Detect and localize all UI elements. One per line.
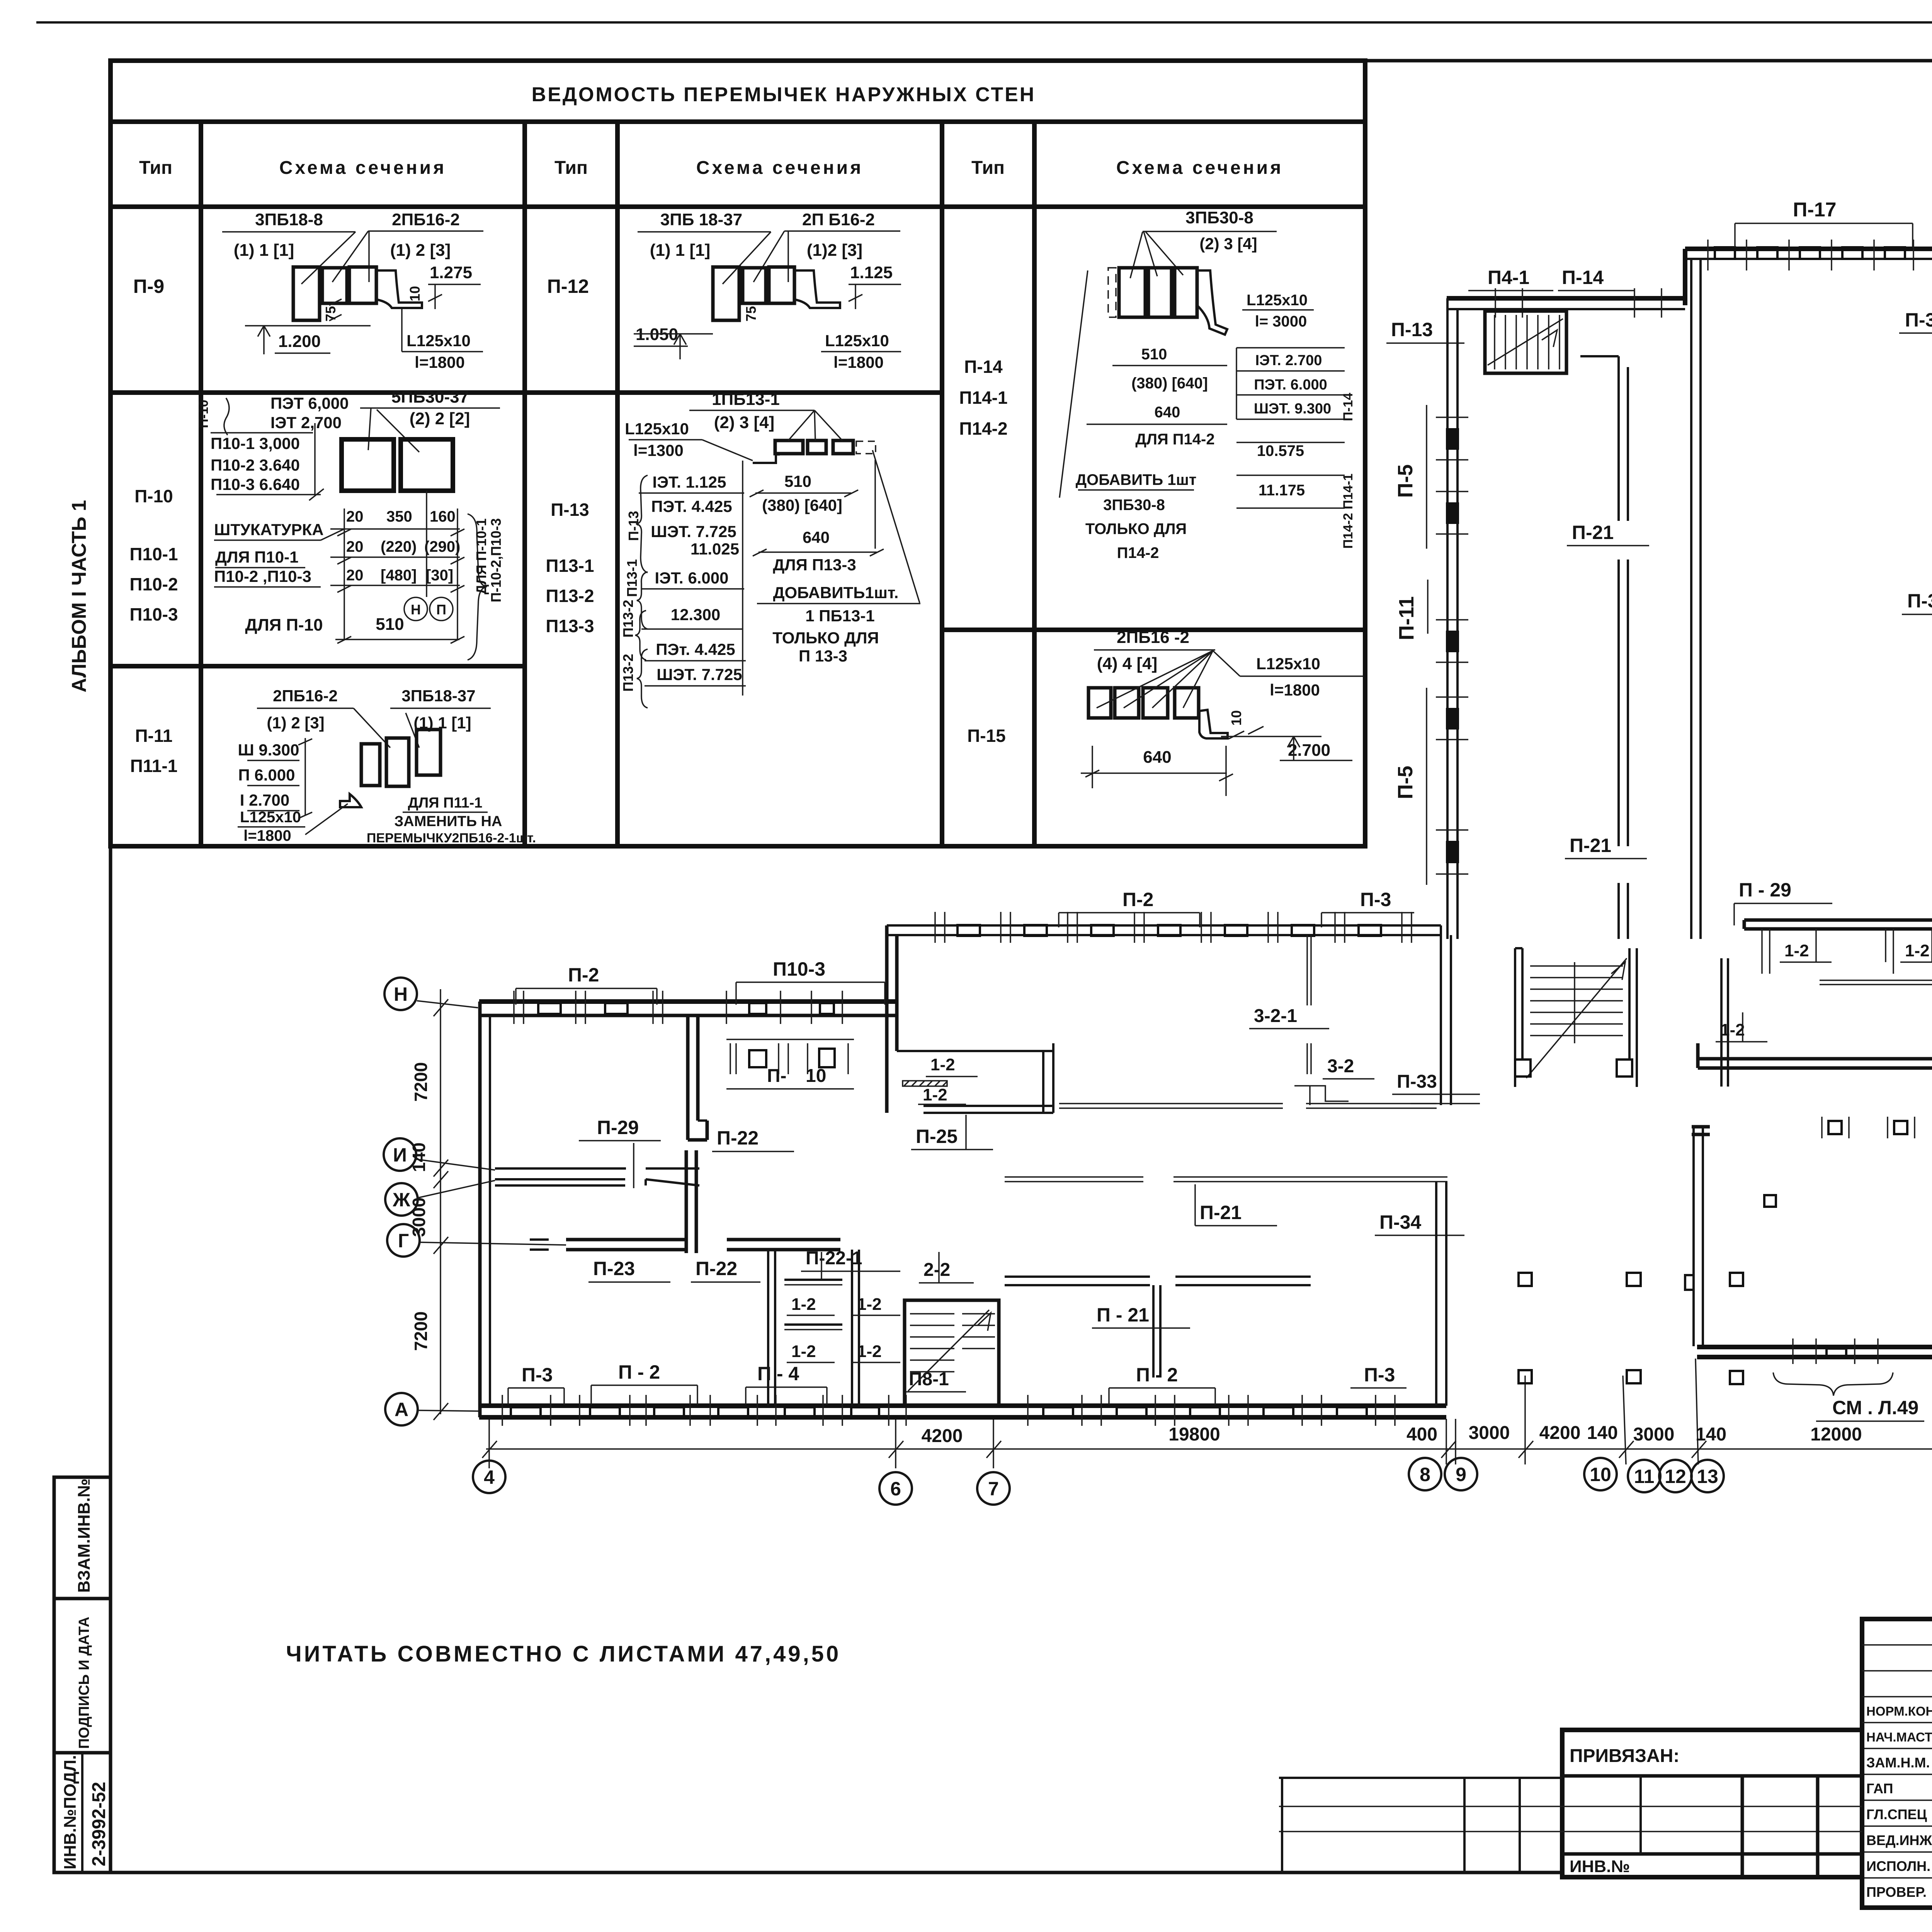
svg-text:3ПБ30-8: 3ПБ30-8 — [1185, 208, 1253, 227]
windows on Н wall — [538, 1003, 561, 1014]
bottom dim ticks — [482, 1441, 1932, 1458]
svg-text:10.575: 10.575 — [1257, 442, 1304, 459]
svg-text:IЭТ. 6.000: IЭТ. 6.000 — [655, 569, 729, 587]
svg-text:П-3: П-3 — [1360, 889, 1391, 910]
svg-text:П10-2 3.640: П10-2 3.640 — [211, 456, 300, 474]
svg-text:П11-1: П11-1 — [130, 756, 178, 776]
П-12 lintel blocks — [713, 267, 739, 320]
svg-text:9: 9 — [1456, 1464, 1466, 1485]
svg-text:75: 75 — [743, 306, 759, 321]
inner frame left — [109, 61, 112, 1872]
svg-text:П - 2: П - 2 — [1136, 1364, 1178, 1386]
left vertical dim line — [440, 989, 441, 1414]
svg-text:П-21: П-21 — [1200, 1202, 1242, 1223]
svg-text:П-21: П-21 — [1572, 522, 1614, 543]
stair columns — [1515, 1060, 1531, 1077]
svg-text:П-25: П-25 — [916, 1126, 957, 1147]
svg-text:ПЕРЕМЫЧКУ2ПБ16-2-1шт.: ПЕРЕМЫЧКУ2ПБ16-2-1шт. — [367, 831, 536, 845]
svg-text:IЭТ. 1.125: IЭТ. 1.125 — [653, 473, 726, 491]
svg-text:640: 640 — [1155, 404, 1180, 421]
svg-text:П 13-3: П 13-3 — [799, 647, 847, 665]
svg-text:12000: 12000 — [1810, 1424, 1862, 1445]
svg-text:L125x10: L125x10 — [240, 809, 301, 826]
svg-text:L125x10: L125x10 — [406, 332, 471, 350]
corridor right wall — [1690, 258, 1692, 939]
svg-text:(2) 2 [2]: (2) 2 [2] — [410, 409, 470, 428]
leader fan — [1097, 651, 1213, 708]
T-wall center (down from Н wall) — [686, 1015, 690, 1140]
svg-text:10: 10 — [806, 1066, 826, 1086]
right wall of middle wing — [1435, 1182, 1437, 1406]
svg-text:ЗАМЕНИТЬ НА: ЗАМЕНИТЬ НА — [395, 813, 502, 830]
Г axis interior walls — [566, 1238, 686, 1242]
svg-text:13: 13 — [1697, 1466, 1718, 1487]
stepped angle — [753, 454, 780, 463]
svg-text:П-13: П-13 — [1391, 319, 1433, 340]
svg-text:1-2: 1-2 — [857, 1342, 882, 1361]
svg-text:19800: 19800 — [1168, 1424, 1220, 1445]
svg-text:П13-1: П13-1 — [546, 556, 594, 576]
two block squares — [342, 439, 394, 491]
svg-text:П-5: П-5 — [1394, 464, 1417, 498]
brace right — [468, 514, 487, 660]
svg-text:ГАП: ГАП — [1866, 1781, 1893, 1796]
svg-text:(2) 3 [4]: (2) 3 [4] — [1199, 235, 1257, 253]
bottom extension lines — [489, 1306, 1932, 1468]
svg-text:400: 400 — [1406, 1424, 1437, 1445]
svg-text:ДЛЯ П-10-1: ДЛЯ П-10-1 — [473, 519, 489, 595]
svg-text:ТОЛЬКО ДЛЯ: ТОЛЬКО ДЛЯ — [772, 629, 879, 647]
svg-text:(1) 2 [3]: (1) 2 [3] — [267, 714, 324, 732]
svg-text:П-36: П-36 — [1905, 309, 1932, 331]
svg-text:НОРМ.КОН: НОРМ.КОН — [1866, 1704, 1932, 1718]
svg-text:(1)2 [3]: (1)2 [3] — [807, 241, 862, 260]
svg-text:ПЭТ 6,000: ПЭТ 6,000 — [270, 394, 349, 412]
svg-text:П-10: П-10 — [196, 400, 211, 428]
svg-text:П13-1: П13-1 — [624, 559, 640, 597]
svg-text:П13-2: П13-2 — [620, 600, 636, 638]
svg-text:2П Б16-2: 2П Б16-2 — [802, 210, 875, 229]
hall left wall — [1692, 1126, 1695, 1346]
axis А bubble left — [385, 1393, 418, 1425]
svg-text:СМ . Л.49: СМ . Л.49 — [1832, 1397, 1918, 1418]
svg-text:П-33: П-33 — [1397, 1071, 1437, 1092]
svg-text:ДЛЯ П-10: ДЛЯ П-10 — [245, 616, 323, 634]
bathroom cluster walls — [767, 1250, 769, 1406]
svg-text:П - 29: П - 29 — [1739, 879, 1791, 901]
svg-text:(290): (290) — [424, 538, 460, 555]
svg-text:20: 20 — [346, 567, 364, 584]
svg-text:ВЕДОМОСТЬ ПЕРЕМЫЧЕК НАРУЖНЫХ: ВЕДОМОСТЬ ПЕРЕМЫЧЕК НАРУЖНЫХ СТЕН — [532, 83, 1036, 106]
svg-text:АЛЬБОМ I ЧАСТЬ 1: АЛЬБОМ I ЧАСТЬ 1 — [68, 500, 90, 692]
svg-text:L125x10: L125x10 — [625, 420, 689, 438]
svg-text:П - 21: П - 21 — [1097, 1304, 1149, 1326]
svg-text:П - 4: П - 4 — [757, 1363, 799, 1384]
svg-text:Ш 9.300: Ш 9.300 — [238, 741, 299, 759]
svg-text:П-22: П-22 — [696, 1258, 737, 1279]
svg-text:ДЛЯ П14-2: ДЛЯ П14-2 — [1135, 431, 1214, 448]
angle under — [1199, 710, 1228, 738]
1-2 lintels bathroom — [784, 1279, 842, 1281]
svg-text:П-14: П-14 — [964, 357, 1003, 377]
corridor columns group — [1627, 1273, 1641, 1286]
svg-text:П-10: П-10 — [134, 486, 173, 506]
lintel blocks row — [775, 440, 803, 454]
inner frame top — [111, 59, 1932, 63]
svg-text:11.175: 11.175 — [1259, 482, 1305, 499]
svg-text:ВЗАМ.ИНВ.№: ВЗАМ.ИНВ.№ — [75, 1478, 94, 1593]
svg-text:(4) 4 [4]: (4) 4 [4] — [1097, 654, 1157, 673]
svg-text:11.025: 11.025 — [690, 540, 739, 558]
svg-text:П-15: П-15 — [967, 726, 1006, 746]
corridor wall П-21 (inner) — [1617, 356, 1620, 521]
svg-text:Тип: Тип — [139, 158, 172, 178]
svg-text:П-34: П-34 — [1379, 1211, 1421, 1233]
svg-text:3000: 3000 — [1633, 1424, 1675, 1445]
ground line + dim 1.200 — [245, 325, 371, 327]
svg-text:1-2: 1-2 — [857, 1295, 882, 1314]
svg-text:А: А — [395, 1399, 408, 1420]
svg-text:ДЛЯ П11-1: ДЛЯ П11-1 — [408, 795, 483, 811]
svg-text:4200: 4200 — [1539, 1423, 1581, 1443]
svg-text:3-2: 3-2 — [1327, 1056, 1354, 1077]
axis Г bubble left — [387, 1224, 420, 1257]
privyazan box — [1562, 1730, 1862, 1877]
svg-text:510: 510 — [1141, 346, 1167, 363]
svg-text:ВЕД.ИНЖ: ВЕД.ИНЖ — [1866, 1832, 1932, 1848]
svg-text:4: 4 — [484, 1466, 495, 1488]
PLAN — [384, 155, 1932, 1505]
svg-text:140: 140 — [409, 1143, 429, 1172]
svg-text:510: 510 — [376, 615, 404, 634]
svg-text:ШЭТ. 7.725: ШЭТ. 7.725 — [656, 665, 742, 684]
lintel schedule table outline — [111, 61, 1365, 846]
svg-text:ГЛ.СПЕЦ: ГЛ.СПЕЦ — [1866, 1806, 1927, 1822]
svg-text:2ПБ16-2: 2ПБ16-2 — [392, 210, 460, 229]
svg-text:(1) 2 [3]: (1) 2 [3] — [390, 241, 451, 260]
hatched lintel in П-25 — [903, 1081, 947, 1086]
svg-text:П-35: П-35 — [1907, 590, 1932, 612]
С wall corner down at x3729 — [1440, 925, 1442, 1105]
svg-text:6: 6 — [890, 1478, 901, 1500]
window ticks on it — [1495, 288, 1662, 318]
svg-text:ДОБАВИТЬ1шт.: ДОБАВИТЬ1шт. — [773, 583, 899, 602]
steel angle П-9 — [376, 270, 422, 308]
bottom axis bubbles — [473, 1454, 1932, 1505]
П-29 room verticals near stair — [1720, 958, 1723, 1087]
floating П-10 columns — [749, 1050, 766, 1067]
1-2 Т-pieces below С wall — [1762, 929, 1932, 974]
svg-text:ИНВ.№ПОДЛ.: ИНВ.№ПОДЛ. — [61, 1755, 80, 1869]
hall top-left stub — [1692, 1125, 1710, 1129]
label 3-2 — [1306, 1043, 1308, 1074]
row line П-14/П-15 — [942, 628, 1365, 632]
svg-text:[480]: [480] — [381, 567, 417, 584]
svg-text:ПЭТ. 4.425: ПЭТ. 4.425 — [651, 497, 732, 515]
wing left wall — [478, 1002, 482, 1417]
svg-text:IЭТ 2,700: IЭТ 2,700 — [270, 413, 342, 432]
svg-text:П: П — [436, 602, 446, 617]
Н axis wall right building left part — [1698, 1057, 1932, 1061]
svg-text:l=1800: l=1800 — [1270, 681, 1320, 699]
see sheet 49 brace bottom — [1773, 1372, 1893, 1396]
axis Ж bubble left — [385, 1183, 418, 1216]
thin wall below П-29 wall — [1820, 980, 1932, 981]
svg-text:1-2: 1-2 — [791, 1342, 816, 1361]
svg-text:12.300: 12.300 — [671, 605, 720, 624]
partition under С wall — [1306, 935, 1308, 1005]
svg-text:И: И — [393, 1144, 407, 1166]
svg-text:L125x10: L125x10 — [825, 332, 889, 350]
svg-text:ПЭТ. 6.000: ПЭТ. 6.000 — [1254, 377, 1327, 393]
svg-text:ПРИВЯЗАН:: ПРИВЯЗАН: — [1570, 1746, 1679, 1766]
svg-text:1.275: 1.275 — [430, 263, 472, 282]
svg-text:8: 8 — [1420, 1464, 1430, 1485]
П-22 wall piece right — [645, 1179, 647, 1185]
И/Ж corridor walls — [495, 1167, 626, 1170]
svg-text:Тип: Тип — [971, 158, 1005, 178]
svg-text:160: 160 — [430, 508, 456, 525]
svg-text:2-3992-52: 2-3992-52 — [89, 1782, 109, 1866]
title block outer — [1862, 1619, 1932, 1908]
svg-text:10: 10 — [1228, 710, 1244, 726]
middle wing bottom wall (窗) continues А wall — [1005, 1403, 1446, 1408]
wing top wall (axis Н) — [479, 999, 896, 1004]
svg-text:3000: 3000 — [409, 1197, 429, 1237]
outer top border line — [36, 21, 1932, 24]
windows on left wall — [1436, 417, 1468, 874]
svg-text:ДЛЯ П10-1: ДЛЯ П10-1 — [215, 548, 299, 566]
hall bottom wall — [1697, 1345, 1932, 1349]
П-17 windows — [1715, 247, 1735, 259]
svg-text:П-11: П-11 — [1395, 596, 1418, 640]
axis И bubble left — [384, 1138, 416, 1171]
row line П-10/П-11 — [111, 664, 525, 668]
svg-text:П-3: П-3 — [1364, 1364, 1395, 1386]
svg-text:(380) [640]: (380) [640] — [762, 496, 842, 514]
vertical wall from Г down — [685, 1150, 688, 1253]
svg-text:ИНВ.№: ИНВ.№ — [1570, 1857, 1630, 1876]
svg-text:П-22-1: П-22-1 — [806, 1248, 862, 1269]
svg-text:П13-3: П13-3 — [546, 616, 594, 636]
svg-text:П14-2 П14-1: П14-2 П14-1 — [1341, 474, 1355, 549]
svg-text:Н: Н — [411, 602, 421, 617]
svg-text:12: 12 — [1665, 1466, 1686, 1487]
svg-text:П-3: П-3 — [522, 1364, 553, 1386]
svg-text:20: 20 — [346, 508, 364, 525]
TITLEBLOCK — [1279, 1619, 1932, 1908]
svg-text:350: 350 — [386, 508, 412, 525]
svg-text:640: 640 — [1143, 748, 1171, 767]
svg-text:Н: Н — [394, 983, 408, 1005]
svg-text:1-2: 1-2 — [1905, 941, 1930, 960]
svg-text:ИСПОЛН.: ИСПОЛН. — [1866, 1858, 1930, 1874]
title row line — [111, 119, 1365, 124]
svg-text:П-2: П-2 — [568, 964, 599, 986]
hall inner columns — [1828, 1121, 1842, 1134]
svg-text:1-2: 1-2 — [1720, 1020, 1745, 1039]
bottom dimension line — [486, 1448, 1932, 1450]
wing bottom wall (axis А) — [479, 1403, 1005, 1408]
stair box — [1485, 311, 1566, 373]
svg-text:2ПБ16-2: 2ПБ16-2 — [273, 687, 338, 705]
axis Н bubble left — [384, 978, 417, 1010]
svg-text:ТОЛЬКО ДЛЯ: ТОЛЬКО ДЛЯ — [1085, 520, 1187, 537]
angle + blocks — [340, 794, 361, 807]
svg-text:20: 20 — [346, 538, 364, 555]
column lines — [199, 122, 203, 846]
storey marks box — [1236, 347, 1345, 349]
svg-text:П10-1: П10-1 — [129, 544, 178, 564]
svg-text:L125x10: L125x10 — [1256, 655, 1320, 673]
TABLE — [111, 61, 1365, 846]
svg-text:П-22: П-22 — [717, 1127, 759, 1149]
svg-text:1-2: 1-2 — [930, 1055, 955, 1074]
svg-text:4200: 4200 — [922, 1426, 963, 1446]
header row line — [111, 204, 1365, 209]
upper-left wall (axis К top) — [1447, 296, 1685, 301]
svg-text:П4-1: П4-1 — [1488, 267, 1529, 288]
svg-text:3ПБ 18-37: 3ПБ 18-37 — [660, 210, 742, 229]
svg-text:7: 7 — [988, 1478, 999, 1500]
jog from П-17 down to lower wall — [1683, 249, 1687, 305]
svg-text:П13-2: П13-2 — [546, 586, 594, 606]
svg-text:10: 10 — [1590, 1464, 1611, 1485]
svg-text:11: 11 — [1634, 1466, 1655, 1487]
svg-text:3-2-1: 3-2-1 — [1254, 1006, 1297, 1026]
svg-text:П-9: П-9 — [133, 276, 164, 297]
svg-text:7200: 7200 — [411, 1311, 431, 1351]
svg-text:140: 140 — [1696, 1424, 1726, 1445]
П-9 lintel blocks — [293, 267, 320, 320]
svg-text:ПЭт. 4.425: ПЭт. 4.425 — [656, 640, 735, 658]
svg-text:П-12: П-12 — [547, 276, 589, 297]
inner frame bottom left segment — [111, 1871, 1562, 1874]
svg-text:Г: Г — [398, 1230, 409, 1252]
svg-text:П-10-2,П10-3: П-10-2,П10-3 — [488, 518, 504, 602]
title block row lines (left part) — [1862, 1644, 1932, 1646]
svg-text:[30]: [30] — [426, 567, 453, 584]
svg-text:П-23: П-23 — [593, 1258, 635, 1279]
П-17 connector wall — [1685, 247, 1932, 251]
svg-text:3ПБ30-8: 3ПБ30-8 — [1103, 497, 1165, 514]
Н П circles — [404, 597, 427, 621]
П-25 room — [897, 1050, 1053, 1052]
svg-text:ПОДПИСЬ И ДАТА: ПОДПИСЬ И ДАТА — [76, 1617, 92, 1749]
svg-text:П-5: П-5 — [1394, 766, 1417, 799]
long wall at y3310 — [1005, 1276, 1150, 1278]
svg-text:П-14: П-14 — [1341, 393, 1355, 421]
svg-text:l=1800: l=1800 — [243, 827, 291, 844]
svg-text:П10-3: П10-3 — [773, 958, 825, 980]
svg-text:l=1800: l=1800 — [833, 353, 884, 371]
svg-text:2ПБ16 -2: 2ПБ16 -2 — [1117, 628, 1189, 647]
svg-text:3ПБ18-37: 3ПБ18-37 — [401, 687, 475, 705]
svg-text:ШЭТ. 9.300: ШЭТ. 9.300 — [1254, 401, 1331, 417]
svg-text:3ПБ18-8: 3ПБ18-8 — [255, 210, 323, 229]
svg-text:П-: П- — [767, 1066, 786, 1086]
svg-text:1ПБ13-1: 1ПБ13-1 — [712, 390, 780, 409]
svg-text:П-13: П-13 — [551, 500, 589, 520]
svg-text:ПРОВЕР.: ПРОВЕР. — [1866, 1884, 1927, 1900]
svg-text:П-11: П-11 — [135, 726, 172, 746]
four blocks with diagonal marks — [1088, 688, 1111, 718]
svg-text:Схема сечения: Схема сечения — [696, 158, 863, 178]
svg-text:ШТУКАТУРКА: ШТУКАТУРКА — [214, 520, 324, 539]
svg-text:L125x10: L125x10 — [1247, 292, 1308, 309]
svg-text:IЭТ. 2.700: IЭТ. 2.700 — [1255, 352, 1322, 369]
svg-text:П10-1 3,000: П10-1 3,000 — [211, 434, 300, 452]
svg-text:П14-1: П14-1 — [959, 388, 1007, 408]
row line П-9/П-10 — [111, 390, 942, 395]
П-9 leader lines — [301, 232, 355, 284]
svg-text:НАЧ.МАСТ: НАЧ.МАСТ — [1866, 1730, 1932, 1744]
svg-text:2-2: 2-2 — [923, 1260, 950, 1280]
svg-text:1-2: 1-2 — [923, 1085, 947, 1104]
svg-text:П-2: П-2 — [1122, 889, 1153, 910]
svg-text:П - 2: П - 2 — [618, 1361, 660, 1383]
svg-text:П-17: П-17 — [1793, 199, 1837, 221]
svg-text:510: 510 — [784, 472, 811, 490]
svg-text:ШЭТ. 7.725: ШЭТ. 7.725 — [651, 522, 736, 541]
svg-text:l=1800: l=1800 — [415, 353, 465, 371]
windows on А wall — [511, 1407, 879, 1417]
svg-text:(1) 1 [1]: (1) 1 [1] — [650, 241, 710, 260]
left exterior wall tall — [1446, 298, 1449, 939]
svg-text:П-21: П-21 — [1570, 835, 1611, 856]
svg-text:1.200: 1.200 — [278, 332, 321, 351]
svg-text:1 ПБ13-1: 1 ПБ13-1 — [805, 607, 874, 625]
svg-text:7200: 7200 — [411, 1062, 431, 1102]
left margin stamp boxes — [54, 1477, 111, 1872]
svg-text:П-14: П-14 — [1562, 267, 1604, 288]
dims 510/640 — [1112, 365, 1227, 366]
svg-text:ДОБАВИТЬ 1шт: ДОБАВИТЬ 1шт — [1076, 471, 1197, 488]
svg-text:I 2.700: I 2.700 — [240, 791, 289, 809]
svg-text:1-2: 1-2 — [1784, 941, 1809, 960]
svg-text:140: 140 — [1587, 1423, 1618, 1443]
svg-text:П10-2 ,П10-3: П10-2 ,П10-3 — [214, 567, 311, 585]
svg-text:П10-3: П10-3 — [129, 604, 178, 624]
svg-text:75: 75 — [323, 306, 338, 321]
svg-text:1.125: 1.125 — [850, 263, 893, 282]
svg-text:Схема сечения: Схема сечения — [279, 158, 446, 178]
svg-text:П10-2: П10-2 — [129, 574, 178, 594]
svg-text:(220): (220) — [381, 538, 417, 555]
svg-text:Схема сечения: Схема сечения — [1116, 158, 1283, 178]
svg-text:1-2: 1-2 — [791, 1295, 816, 1314]
svg-text:10: 10 — [407, 286, 423, 301]
small table left of privyazan — [1279, 1777, 1562, 1779]
svg-text:640: 640 — [803, 528, 830, 546]
svg-text:ДЛЯ П13-3: ДЛЯ П13-3 — [773, 556, 856, 574]
svg-text:l=1300: l=1300 — [633, 441, 684, 459]
svg-text:3000: 3000 — [1469, 1423, 1510, 1443]
svg-text:Тип: Тип — [554, 158, 588, 178]
svg-text:(2) 3 [4]: (2) 3 [4] — [714, 413, 774, 432]
svg-text:5ПБ30-37: 5ПБ30-37 — [391, 388, 469, 406]
svg-text:ЧИТАТЬ СОВМЕСТНО С ЛИСТАМИ: ЧИТАТЬ СОВМЕСТНО С ЛИСТАМИ 47,49,50 — [286, 1641, 841, 1667]
svg-text:l= 3000: l= 3000 — [1255, 313, 1307, 330]
svg-text:ЗАМ.Н.М.: ЗАМ.Н.М. — [1866, 1755, 1930, 1770]
svg-text:П10-3 6.640: П10-3 6.640 — [211, 475, 300, 493]
svg-text:П 6.000: П 6.000 — [238, 766, 295, 784]
stair П8-1 — [905, 1300, 999, 1406]
svg-text:(1) 1 [1]: (1) 1 [1] — [234, 241, 294, 260]
svg-text:(380) [640]: (380) [640] — [1131, 375, 1208, 392]
svg-text:П14-2: П14-2 — [1117, 544, 1159, 561]
windows — [957, 925, 1381, 936]
